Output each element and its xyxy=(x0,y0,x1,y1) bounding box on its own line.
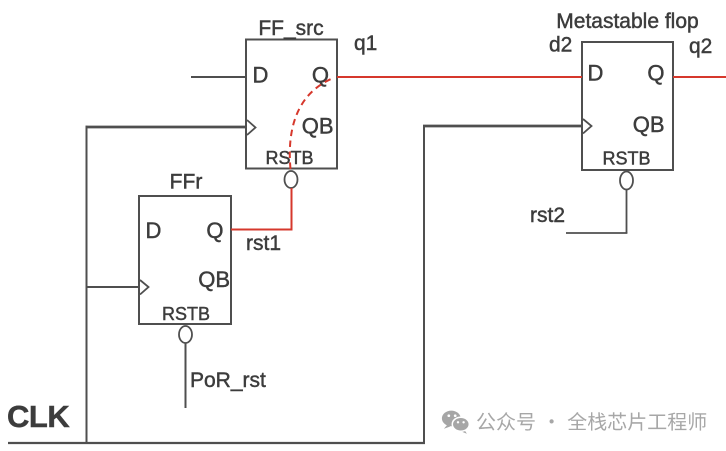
node label PoR_rst xyxy=(190,369,266,392)
flip-flop FF_src body xyxy=(246,40,337,169)
svg-text:CLK: CLK xyxy=(7,399,70,434)
svg-text:FF_src: FF_src xyxy=(258,17,323,40)
wire PoR_rst stub xyxy=(185,343,187,408)
wire clock branch to FFr xyxy=(86,286,140,288)
Metastable pin D label xyxy=(588,61,604,86)
FF_src RSTB bubble xyxy=(285,171,298,188)
wire net rst1 vertical (red) xyxy=(291,188,293,231)
svg-text:rst1: rst1 xyxy=(246,232,281,255)
svg-text:D: D xyxy=(253,63,269,88)
wire clock riser to Metastable xyxy=(423,125,425,443)
Metastable pin RSTB label xyxy=(602,149,650,169)
FFr pin D label xyxy=(146,218,162,243)
node label q2 xyxy=(689,35,712,58)
FFr pin Q label xyxy=(206,218,223,243)
watermark text xyxy=(477,412,706,431)
svg-text:D: D xyxy=(588,61,604,86)
FF_src pin Q label xyxy=(312,63,329,88)
wire rst2 horizontal xyxy=(566,232,627,234)
wire clock branch to FF_src xyxy=(86,126,247,129)
svg-text:Metastable flop: Metastable flop xyxy=(556,10,698,33)
node label rst1 xyxy=(246,232,281,255)
Metastable pin QB label xyxy=(633,112,665,137)
svg-text:RSTB: RSTB xyxy=(602,149,650,169)
Metastable flop label xyxy=(556,10,698,33)
wire net q1 (red) xyxy=(337,76,582,78)
FF_src label xyxy=(258,17,323,40)
node label d2 xyxy=(549,34,572,57)
Metastable clock triangle xyxy=(583,119,592,134)
svg-text:QB: QB xyxy=(302,114,334,139)
wire CLK trunk vertical xyxy=(86,126,88,444)
dashed reset-to-Q path inside FF_src (red) xyxy=(290,79,331,169)
node label rst2 xyxy=(530,204,565,227)
svg-text:FFr: FFr xyxy=(170,171,203,194)
node label CLK xyxy=(7,399,70,434)
FFr label xyxy=(170,171,203,194)
wire net rst1 horizontal (red) xyxy=(231,229,293,231)
FF_src pin D label xyxy=(253,63,269,88)
Metastable RSTB bubble xyxy=(620,172,633,190)
svg-text:Q: Q xyxy=(647,61,664,86)
svg-text:q2: q2 xyxy=(689,35,712,58)
svg-text:q1: q1 xyxy=(354,32,377,55)
FFr RSTB bubble xyxy=(179,326,192,343)
FFr pin RSTB label xyxy=(162,304,210,324)
svg-text:QB: QB xyxy=(633,112,665,137)
svg-text:RSTB: RSTB xyxy=(162,304,210,324)
watermark wechat icon xyxy=(442,411,469,434)
svg-text:PoR_rst: PoR_rst xyxy=(190,369,266,392)
svg-text:d2: d2 xyxy=(549,34,572,57)
flip-flop FFr body xyxy=(139,196,231,324)
wire clock branch to Metastable xyxy=(423,125,582,128)
wire net q2 (red) xyxy=(673,76,726,78)
wire rst2 vertical xyxy=(626,190,628,234)
FFr clock triangle xyxy=(140,280,149,295)
svg-text:Q: Q xyxy=(206,218,223,243)
node label q1 xyxy=(354,32,377,55)
flip-flop Metastable body xyxy=(582,42,673,170)
wire CLK bottom rail xyxy=(8,442,425,444)
FF_src pin QB label xyxy=(302,114,334,139)
svg-text:rst2: rst2 xyxy=(530,204,565,227)
svg-text:Q: Q xyxy=(312,63,329,88)
wire FF_src D input xyxy=(191,76,246,78)
svg-text:QB: QB xyxy=(198,267,230,292)
FF_src pin RSTB label xyxy=(265,148,313,168)
FFr pin QB label xyxy=(198,267,230,292)
FF_src clock triangle xyxy=(247,120,256,135)
svg-text:D: D xyxy=(146,218,162,243)
Metastable pin Q label xyxy=(647,61,664,86)
